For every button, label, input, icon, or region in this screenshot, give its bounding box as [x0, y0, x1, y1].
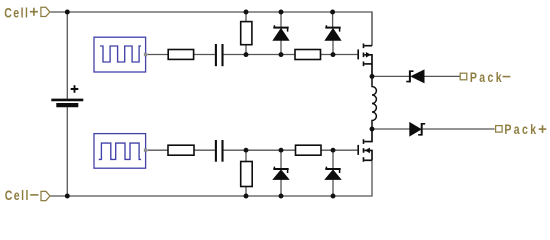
svg-text:Cell: Cell: [4, 5, 29, 21]
svg-text:Cell: Cell: [5, 188, 30, 204]
svg-text:Pack: Pack: [470, 70, 504, 86]
svg-text:Pack: Pack: [504, 122, 538, 138]
